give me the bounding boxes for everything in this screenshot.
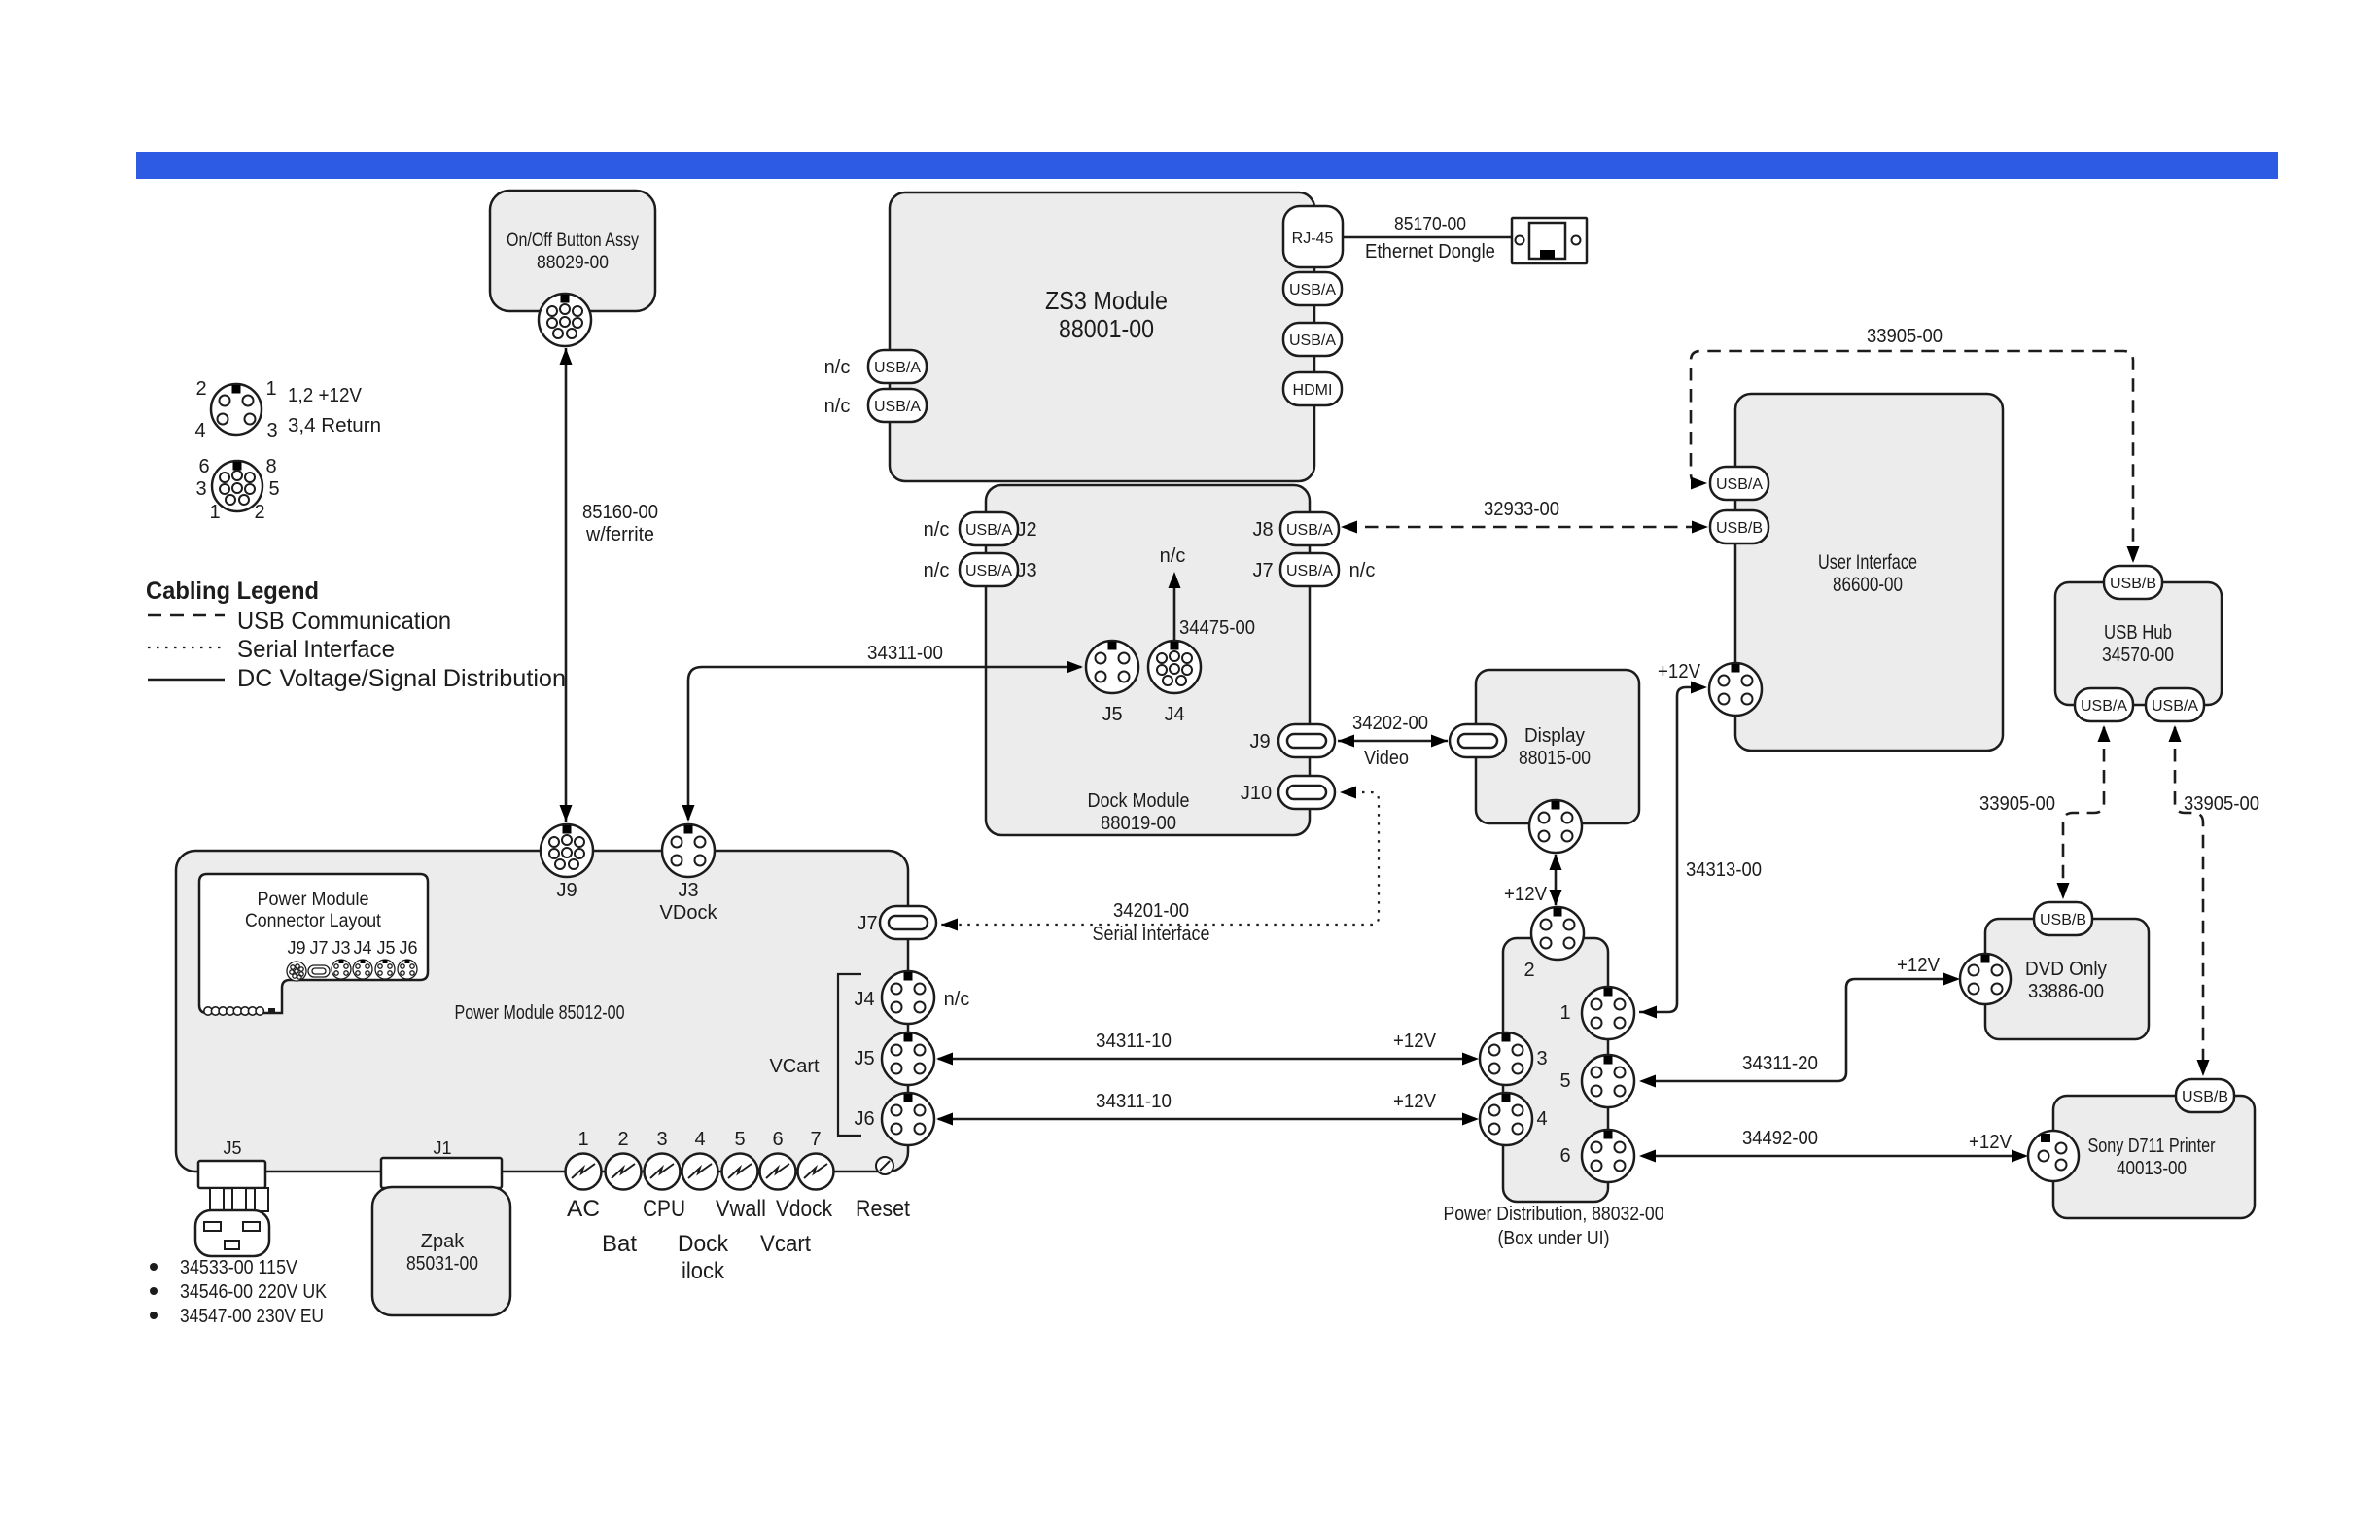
svg-text:34202-00: 34202-00 xyxy=(1352,713,1428,734)
port dock J7 USB/A n/c xyxy=(1280,553,1339,586)
svg-text:Dock: Dock xyxy=(678,1231,729,1257)
svg-text:1,2 +12V: 1,2 +12V xyxy=(288,385,363,406)
svg-text:85160-00: 85160-00 xyxy=(582,502,658,523)
svg-text:+12V: +12V xyxy=(1969,1132,2012,1153)
svg-text:RJ-45: RJ-45 xyxy=(1292,230,1334,247)
cable 34311-00 xyxy=(688,667,1081,820)
svg-text:Vwall: Vwall xyxy=(716,1196,766,1222)
connector display power 4-pin xyxy=(1529,800,1582,853)
svg-text:Reset: Reset xyxy=(856,1196,910,1222)
port hub USB/A right xyxy=(2146,688,2204,721)
svg-text:5: 5 xyxy=(1559,1070,1570,1092)
port ZS3 USB/A right 1 xyxy=(1283,272,1342,305)
svg-text:USB/B: USB/B xyxy=(2040,912,2086,928)
cable 34311-20 xyxy=(1642,979,1957,1081)
svg-text:J7: J7 xyxy=(857,913,877,934)
svg-text:33905-00: 33905-00 xyxy=(1867,326,1942,347)
port ZS3 USB/A lower n/c xyxy=(868,389,927,422)
cable 33905-00 UI to USB hub xyxy=(1691,351,2133,560)
svg-text:n/c: n/c xyxy=(944,989,970,1010)
port dock J3 USB/A n/c xyxy=(960,553,1018,586)
svg-text:88019-00: 88019-00 xyxy=(1101,813,1176,834)
reset button xyxy=(876,1157,893,1174)
svg-text:32933-00: 32933-00 xyxy=(1484,499,1559,520)
cable 32933-00 xyxy=(1344,526,1705,529)
svg-text:Zpak: Zpak xyxy=(421,1231,465,1252)
svg-text:DVD Only: DVD Only xyxy=(2025,959,2107,980)
svg-text:4: 4 xyxy=(694,1129,705,1150)
svg-text:J3: J3 xyxy=(1016,560,1036,581)
svg-text:34570-00: 34570-00 xyxy=(2102,645,2174,666)
svg-text:+12V: +12V xyxy=(1393,1031,1437,1052)
svg-text:w/ferrite: w/ferrite xyxy=(585,524,654,545)
port dock J10 video xyxy=(1278,776,1335,809)
svg-text:2: 2 xyxy=(617,1129,628,1150)
svg-text:USB/A: USB/A xyxy=(965,563,1012,579)
svg-text:+12V: +12V xyxy=(1504,884,1548,905)
module Power Distribution 88032-00 xyxy=(1503,938,1608,1202)
port UI USB/A xyxy=(1710,467,1768,500)
module DVD Only 33886-00 xyxy=(1985,919,2149,1039)
svg-text:J4: J4 xyxy=(1164,704,1184,725)
svg-text:Power Module 85012-00: Power Module 85012-00 xyxy=(455,1002,625,1024)
svg-text:J9: J9 xyxy=(556,880,577,901)
port RJ-45 xyxy=(1283,206,1343,267)
svg-text:Power Distribution, 88032-00: Power Distribution, 88032-00 xyxy=(1444,1204,1664,1225)
svg-text:Bat: Bat xyxy=(602,1231,637,1257)
svg-text:USB/A: USB/A xyxy=(965,522,1012,539)
svg-text:J4: J4 xyxy=(353,938,371,958)
svg-text:DC Voltage/Signal Distribution: DC Voltage/Signal Distribution xyxy=(237,665,566,692)
svg-text:34311-20: 34311-20 xyxy=(1742,1053,1818,1074)
svg-text:Serial Interface: Serial Interface xyxy=(1093,924,1210,945)
module User Interface 86600-00 xyxy=(1735,394,2003,751)
module Sony D711 Printer 40013-00 xyxy=(2053,1096,2255,1218)
cable 34313-00 xyxy=(1639,687,1704,1012)
svg-text:4: 4 xyxy=(1536,1108,1547,1130)
svg-text:3,4 Return: 3,4 Return xyxy=(288,415,381,437)
connector PD 5 xyxy=(1582,1055,1634,1107)
svg-text:34311-10: 34311-10 xyxy=(1096,1091,1172,1112)
cable +12V display to power distribution 2 xyxy=(1555,855,1557,905)
svg-text:J3: J3 xyxy=(332,938,350,958)
svg-text:AC: AC xyxy=(567,1196,600,1222)
port DVD USB/B xyxy=(2034,902,2092,935)
pinout legend 8-pin connector xyxy=(212,461,262,511)
cable 34311-10 power J6 to PD4 xyxy=(938,1118,1476,1121)
svg-text:6: 6 xyxy=(1559,1145,1570,1167)
svg-text:USB/A: USB/A xyxy=(1286,522,1333,539)
svg-text:USB/A: USB/A xyxy=(2152,698,2198,715)
svg-text:34475-00: 34475-00 xyxy=(1179,617,1255,639)
fuse 5 xyxy=(722,1154,758,1190)
cable 33905-00 hub to DVD xyxy=(2063,727,2104,895)
connector PD 3 xyxy=(1480,1032,1532,1085)
svg-text:J5: J5 xyxy=(376,938,395,958)
module Dock 88019-00 xyxy=(986,485,1310,835)
connector printer power 3-pin xyxy=(2028,1131,2079,1181)
svg-text:3: 3 xyxy=(266,420,277,441)
svg-text:34546-00 220V UK: 34546-00 220V UK xyxy=(180,1281,328,1303)
inset tiny connectors row xyxy=(287,960,417,981)
svg-text:CPU: CPU xyxy=(643,1196,685,1222)
svg-text:J9: J9 xyxy=(287,938,305,958)
cable 85170-00 to ethernet dongle xyxy=(1343,236,1512,239)
svg-text:5: 5 xyxy=(734,1129,745,1150)
fuse 2 xyxy=(606,1154,642,1190)
svg-text:n/c: n/c xyxy=(1349,560,1376,581)
module Zpak 85031-00 xyxy=(372,1187,510,1315)
svg-text:USB/B: USB/B xyxy=(1716,520,1763,537)
AC plug prongs xyxy=(210,1188,224,1211)
svg-text:USB/B: USB/B xyxy=(2182,1089,2228,1105)
connector DVD power 4-pin xyxy=(1960,954,2011,1004)
svg-text:VCart: VCart xyxy=(769,1056,820,1077)
connector power J4 n/c xyxy=(882,971,934,1024)
svg-text:3: 3 xyxy=(1536,1048,1547,1069)
connector PD 4 xyxy=(1480,1093,1532,1145)
svg-text:User Interface: User Interface xyxy=(1818,551,1917,574)
port display video xyxy=(1450,724,1506,757)
module ZS3 88001-00 xyxy=(890,192,1314,481)
svg-text:On/Off Button Assy: On/Off Button Assy xyxy=(507,230,639,251)
svg-text:J2: J2 xyxy=(1016,519,1036,541)
connector power J9 xyxy=(541,824,593,877)
svg-text:n/c: n/c xyxy=(924,519,950,541)
svg-text:USB/A: USB/A xyxy=(1289,332,1336,349)
port dock J8 USB/A xyxy=(1280,512,1339,545)
svg-text:J7: J7 xyxy=(309,938,328,958)
cable 33905-00 hub to printer xyxy=(2175,727,2203,1072)
inset tiny bus circles xyxy=(204,1007,275,1015)
svg-text:J4: J4 xyxy=(854,989,874,1010)
svg-text:J6: J6 xyxy=(399,938,417,958)
svg-text:USB/B: USB/B xyxy=(2110,576,2156,592)
connector dock J4 xyxy=(1148,641,1201,693)
svg-text:3: 3 xyxy=(195,478,206,500)
svg-text:n/c: n/c xyxy=(824,357,851,378)
svg-text:USB Communication: USB Communication xyxy=(237,608,451,635)
svg-text:2: 2 xyxy=(1523,960,1534,981)
svg-text:1: 1 xyxy=(209,502,220,523)
svg-text:J5: J5 xyxy=(223,1138,241,1158)
fuse 1 xyxy=(566,1154,602,1190)
port power J7 serial xyxy=(880,906,936,939)
svg-text:USB/A: USB/A xyxy=(874,399,921,415)
svg-text:USB/A: USB/A xyxy=(2081,698,2127,715)
svg-text:USB/A: USB/A xyxy=(1716,476,1763,493)
connector On/Off 8-pin xyxy=(539,294,591,346)
svg-text:7: 7 xyxy=(810,1129,821,1150)
svg-text:1: 1 xyxy=(265,378,276,400)
port ZS3 USB/A right 2 xyxy=(1283,323,1342,356)
cable 34311-10 power J5 to PD3 xyxy=(938,1058,1476,1061)
svg-text:Cabling Legend: Cabling Legend xyxy=(146,577,319,605)
svg-text:34547-00 230V EU: 34547-00 230V EU xyxy=(180,1306,324,1327)
svg-text:n/c: n/c xyxy=(924,560,950,581)
svg-text:USB/A: USB/A xyxy=(1289,282,1336,298)
svg-text:88029-00: 88029-00 xyxy=(537,253,609,273)
svg-text:1: 1 xyxy=(1559,1002,1570,1024)
svg-text:USB/A: USB/A xyxy=(1286,563,1333,579)
port dock J2 USB/A n/c xyxy=(960,512,1018,545)
svg-text:Vcart: Vcart xyxy=(760,1231,811,1257)
fuse 6 xyxy=(760,1154,796,1190)
connector UI power 4-pin xyxy=(1709,663,1762,716)
port dock J9 video xyxy=(1278,724,1335,757)
cable 34492-00 xyxy=(1642,1155,2025,1158)
cable 34475-00 n/c xyxy=(1173,576,1176,642)
port printer USB/B xyxy=(2176,1079,2234,1112)
svg-text:6: 6 xyxy=(198,456,209,477)
module Display 88015-00 xyxy=(1476,670,1639,823)
svg-text:ZS3 Module: ZS3 Module xyxy=(1045,286,1168,315)
svg-text:Dock Module: Dock Module xyxy=(1088,790,1190,812)
port hub USB/A left xyxy=(2075,688,2133,721)
svg-text:88015-00: 88015-00 xyxy=(1519,748,1591,769)
svg-text:34313-00: 34313-00 xyxy=(1686,859,1762,881)
VCart bracket xyxy=(838,974,861,1136)
svg-text:2: 2 xyxy=(254,502,264,523)
svg-text:J8: J8 xyxy=(1252,519,1273,541)
module Power Module 85012-00 xyxy=(176,851,908,1172)
svg-text:85031-00: 85031-00 xyxy=(406,1253,478,1275)
svg-text:3: 3 xyxy=(656,1129,667,1150)
AC plug xyxy=(195,1210,269,1256)
fuse 3 xyxy=(645,1154,681,1190)
svg-text:Vdock: Vdock xyxy=(776,1196,833,1222)
svg-text:J5: J5 xyxy=(1102,704,1122,725)
module USB Hub 34570-00 xyxy=(2055,582,2222,705)
svg-text:J9: J9 xyxy=(1249,731,1270,752)
svg-text:34311-10: 34311-10 xyxy=(1096,1031,1172,1052)
svg-text:Video: Video xyxy=(1364,748,1409,769)
fuse 4 xyxy=(682,1154,718,1190)
svg-text:HDMI: HDMI xyxy=(1293,382,1333,399)
port ZS3 HDMI xyxy=(1283,372,1342,405)
svg-text:2: 2 xyxy=(195,378,206,400)
svg-text:J5: J5 xyxy=(854,1048,874,1069)
connector power J3 VDock xyxy=(662,824,715,877)
module On/Off Button Assy 88029-00 xyxy=(490,191,655,311)
svg-text:86600-00: 86600-00 xyxy=(1833,574,1903,596)
svg-text:+12V: +12V xyxy=(1658,661,1701,682)
svg-text:Connector Layout: Connector Layout xyxy=(245,911,382,931)
connector dock J5 xyxy=(1086,641,1138,693)
svg-text:4: 4 xyxy=(194,420,205,441)
port hub USB/B xyxy=(2104,566,2162,599)
svg-text:Serial Interface: Serial Interface xyxy=(237,636,395,663)
pinout legend 4-pin connector xyxy=(211,384,262,435)
svg-text:33905-00: 33905-00 xyxy=(2184,793,2259,815)
svg-text:34311-00: 34311-00 xyxy=(867,643,943,664)
svg-text:n/c: n/c xyxy=(824,396,851,417)
svg-text:88001-00: 88001-00 xyxy=(1059,314,1154,343)
svg-text:Display: Display xyxy=(1524,725,1585,747)
svg-text:34533-00 115V: 34533-00 115V xyxy=(180,1257,298,1278)
connector PD 1 xyxy=(1582,987,1634,1039)
svg-text:8: 8 xyxy=(265,456,276,477)
svg-text:Ethernet Dongle: Ethernet Dongle xyxy=(1365,241,1495,262)
power module connector layout inset xyxy=(199,874,428,1013)
svg-text:+12V: +12V xyxy=(1897,955,1941,976)
svg-text:USB Hub: USB Hub xyxy=(2104,622,2172,644)
svg-text:85170-00: 85170-00 xyxy=(1394,214,1466,235)
svg-text:34492-00: 34492-00 xyxy=(1742,1128,1818,1149)
title bar xyxy=(136,152,2278,179)
fuse 7 xyxy=(798,1154,834,1190)
svg-text:6: 6 xyxy=(772,1129,783,1150)
port UI USB/B xyxy=(1710,510,1768,543)
svg-text:J6: J6 xyxy=(854,1108,874,1130)
svg-text:Power Module: Power Module xyxy=(258,890,369,910)
cable 34202-00 video xyxy=(1338,740,1448,743)
svg-text:VDock: VDock xyxy=(660,902,718,924)
svg-text:+12V: +12V xyxy=(1393,1091,1437,1112)
svg-text:J10: J10 xyxy=(1241,783,1272,804)
svg-text:n/c: n/c xyxy=(1160,545,1186,567)
svg-text:(Box under UI): (Box under UI) xyxy=(1498,1228,1610,1249)
svg-text:Sony D711 Printer: Sony D711 Printer xyxy=(2088,1136,2216,1157)
cable 34201-00 serial interface xyxy=(941,792,1379,925)
connector power J6 xyxy=(882,1093,934,1145)
cable 85160-00 w/ferrite xyxy=(565,348,568,822)
connector PD 6 xyxy=(1582,1130,1634,1182)
svg-text:ilock: ilock xyxy=(682,1258,725,1284)
svg-text:USB/A: USB/A xyxy=(874,360,921,376)
svg-text:33905-00: 33905-00 xyxy=(1979,793,2055,815)
svg-text:40013-00: 40013-00 xyxy=(2117,1158,2187,1179)
svg-text:33886-00: 33886-00 xyxy=(2028,981,2104,1002)
power cord part list xyxy=(150,1263,157,1271)
svg-text:34201-00: 34201-00 xyxy=(1113,900,1189,922)
svg-text:J3: J3 xyxy=(678,880,698,901)
connector power J5 xyxy=(882,1032,934,1085)
ethernet dongle xyxy=(1512,218,1587,263)
svg-text:J7: J7 xyxy=(1252,560,1273,581)
connector PD 2 xyxy=(1531,907,1584,960)
port ZS3 USB/A upper n/c xyxy=(868,350,927,383)
svg-text:1: 1 xyxy=(577,1129,588,1150)
svg-text:J1: J1 xyxy=(433,1138,451,1158)
svg-text:5: 5 xyxy=(268,478,279,500)
